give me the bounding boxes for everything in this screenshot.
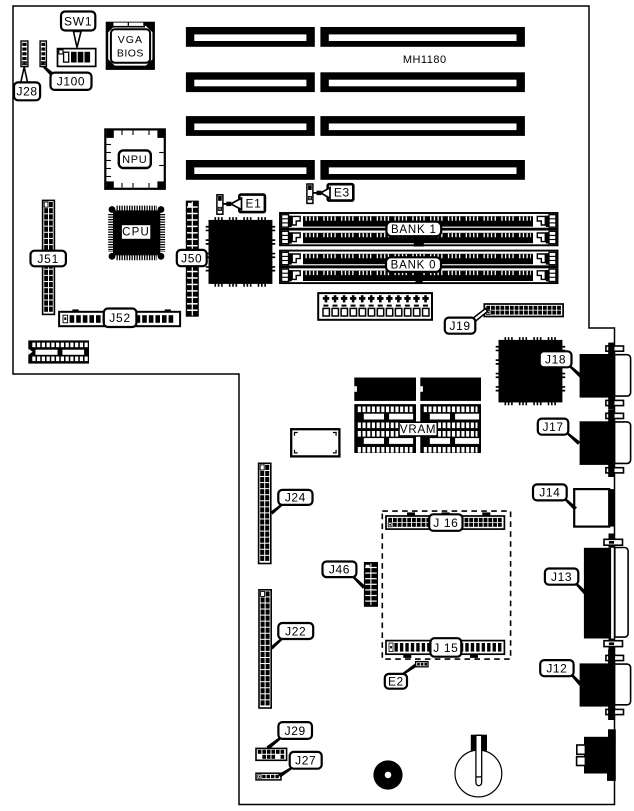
jumper E2 <box>416 662 428 667</box>
svg-text:J19: J19 <box>449 319 470 333</box>
BANK 0 label nub <box>416 272 423 283</box>
label J46 <box>323 562 366 589</box>
label J29 <box>267 722 313 749</box>
video ROM chip 2 <box>420 378 481 401</box>
DIP switch SW1 <box>58 49 96 67</box>
label J28 <box>14 67 40 100</box>
svg-text:BANK 1: BANK 1 <box>391 224 437 236</box>
label E3 <box>313 184 353 200</box>
connector J24 <box>259 463 271 563</box>
label J52 <box>104 309 137 328</box>
connector J29 <box>256 748 287 760</box>
ISA slot right 4 <box>320 160 525 180</box>
svg-text:J12: J12 <box>546 661 567 675</box>
label J15 <box>430 638 461 657</box>
connector J46 <box>364 562 378 607</box>
battery <box>455 735 502 797</box>
label J22 <box>271 623 314 650</box>
label J17 <box>538 419 581 445</box>
svg-text:VGA: VGA <box>118 34 143 46</box>
SIMM socket BANK 0 row 2 <box>280 267 558 283</box>
connector J28 <box>21 41 28 67</box>
port J13 (parallel, on edge) <box>584 534 628 653</box>
label E1 <box>223 195 265 213</box>
connector J100 <box>40 41 46 67</box>
ISA slot left 4 <box>186 160 315 180</box>
svg-text:J17: J17 <box>542 420 563 434</box>
connector J27 <box>256 773 281 780</box>
label J13 <box>545 569 587 595</box>
svg-text:J51: J51 <box>37 252 59 266</box>
svg-text:CPU: CPU <box>122 227 150 239</box>
svg-text:J28: J28 <box>16 85 37 99</box>
label J27 <box>278 752 322 778</box>
DIP socket <box>28 340 89 363</box>
svg-text:J18: J18 <box>545 353 566 367</box>
svg-text:BANK 0: BANK 0 <box>391 260 437 272</box>
ISA slot left 1 <box>186 27 315 47</box>
port J18 (on edge) <box>580 343 631 410</box>
svg-text:J27: J27 <box>295 754 316 768</box>
label E2 <box>385 664 417 689</box>
svg-text:J 15: J 15 <box>433 641 458 655</box>
connector J52 <box>59 309 180 326</box>
label SW1 <box>61 12 95 48</box>
port J17 (on edge) <box>580 410 631 477</box>
BANK 1 label nub <box>414 236 424 247</box>
VRAM label <box>399 422 437 436</box>
NPU socket <box>105 129 165 188</box>
svg-text:J 16: J 16 <box>433 516 458 530</box>
VGA BIOS chip U? <box>106 22 155 70</box>
label BANK 1 <box>386 222 441 237</box>
connector J16 <box>386 512 504 529</box>
svg-text:E1: E1 <box>246 197 262 211</box>
svg-text:J100: J100 <box>57 75 85 89</box>
svg-text:NPU: NPU <box>122 154 147 166</box>
label J19 <box>445 309 488 334</box>
DIN connector (bottom right edge) <box>577 729 616 781</box>
VRAM block 1 <box>354 404 416 453</box>
connector J19 <box>484 304 563 317</box>
daughtercard outline (dashed) <box>382 511 510 659</box>
port J12 (on edge) <box>580 649 631 720</box>
label J50 <box>177 250 207 266</box>
label J18 <box>540 351 583 378</box>
label J14 <box>533 484 577 510</box>
svg-text:J52: J52 <box>109 311 131 325</box>
jumper E3 <box>307 184 313 203</box>
label J24 <box>271 490 313 515</box>
chip (by J18) <box>497 339 563 404</box>
svg-text:J14: J14 <box>539 486 560 500</box>
VRAM block 2 <box>420 404 481 453</box>
label J12 <box>540 660 582 686</box>
svg-text:J13: J13 <box>551 570 572 584</box>
svg-text:SW1: SW1 <box>64 14 92 28</box>
ISA slot right 1 <box>320 27 525 47</box>
jumper E1 <box>217 195 223 214</box>
svg-text:J29: J29 <box>285 724 306 738</box>
svg-text:J22: J22 <box>285 624 306 638</box>
ISA slot right 3 <box>320 116 525 136</box>
SIMM socket BANK 1 row 1 <box>280 213 558 229</box>
connector J50 <box>186 201 199 317</box>
crystal box <box>291 429 339 456</box>
connector J22 <box>259 590 271 708</box>
speaker <box>373 760 402 789</box>
svg-text:J46: J46 <box>329 563 350 577</box>
CPU <box>109 206 165 260</box>
SIMM socket BANK 0 row 1 <box>280 251 558 267</box>
power connector <box>318 293 432 320</box>
label BANK 0 <box>386 257 441 272</box>
label J51 <box>31 251 66 267</box>
chipset chip (by J50) <box>207 219 273 285</box>
connector J51 <box>43 200 55 314</box>
ISA slot left 2 <box>186 72 315 92</box>
svg-text:E3: E3 <box>334 186 350 200</box>
connector J15 <box>386 641 504 658</box>
svg-text:MH1180: MH1180 <box>403 54 447 66</box>
SIMM socket BANK 1 row 2 <box>280 230 558 246</box>
svg-text:J50: J50 <box>181 251 202 265</box>
svg-text:BIOS: BIOS <box>117 48 144 60</box>
video ROM chip 1 <box>354 378 416 401</box>
svg-text:J24: J24 <box>285 491 306 505</box>
label J100 <box>42 67 92 90</box>
ISA slot left 3 <box>186 116 315 136</box>
port J14 (keyboard) <box>574 489 614 526</box>
label J16 <box>429 514 462 531</box>
svg-text:VRAM: VRAM <box>400 424 436 436</box>
ISA slot right 2 <box>320 72 525 92</box>
svg-text:E2: E2 <box>388 675 404 689</box>
